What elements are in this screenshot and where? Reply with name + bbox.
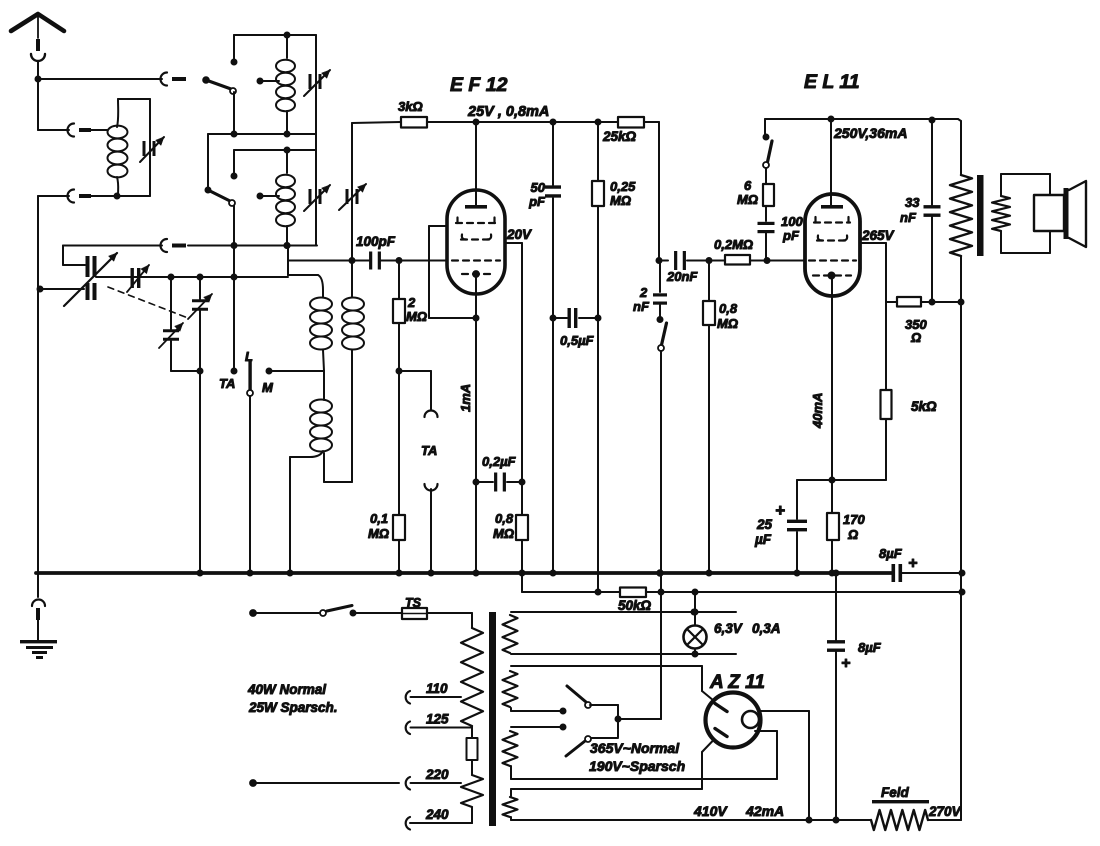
svg-text:0,2MΩ: 0,2MΩ bbox=[714, 237, 753, 252]
svg-text:A Z 11: A Z 11 bbox=[709, 672, 765, 693]
svg-text:MΩ: MΩ bbox=[717, 316, 738, 331]
svg-text:MΩ: MΩ bbox=[368, 526, 389, 541]
svg-text:TA: TA bbox=[219, 376, 235, 391]
svg-text:365V~Normal: 365V~Normal bbox=[590, 740, 680, 756]
svg-text:0,1: 0,1 bbox=[370, 511, 388, 526]
svg-text:100pF: 100pF bbox=[356, 234, 396, 249]
svg-text:25kΩ: 25kΩ bbox=[602, 129, 637, 144]
svg-text:2: 2 bbox=[407, 295, 416, 310]
svg-text:25W Sparsch.: 25W Sparsch. bbox=[248, 700, 338, 715]
svg-text:40W Normal: 40W Normal bbox=[247, 682, 326, 697]
svg-text:8µF: 8µF bbox=[879, 546, 903, 561]
svg-text:2: 2 bbox=[639, 285, 648, 300]
svg-text:nF: nF bbox=[633, 299, 650, 314]
svg-text:E L 11: E L 11 bbox=[804, 71, 860, 93]
svg-text:20V: 20V bbox=[506, 227, 532, 242]
svg-text:33: 33 bbox=[905, 195, 920, 210]
svg-text:5kΩ: 5kΩ bbox=[911, 399, 937, 414]
svg-text:+: + bbox=[775, 501, 785, 520]
svg-text:190V~Sparsch: 190V~Sparsch bbox=[589, 758, 685, 774]
svg-text:40mA: 40mA bbox=[810, 393, 825, 429]
svg-text:250V,36mA: 250V,36mA bbox=[833, 125, 907, 141]
svg-text:+: + bbox=[908, 555, 917, 572]
svg-text:Ω: Ω bbox=[910, 330, 921, 345]
svg-text:Ω: Ω bbox=[847, 527, 858, 542]
svg-text:3kΩ: 3kΩ bbox=[398, 99, 423, 114]
svg-text:265V: 265V bbox=[861, 228, 895, 243]
svg-text:0,2µF: 0,2µF bbox=[482, 454, 517, 469]
svg-text:E F 12: E F 12 bbox=[450, 74, 508, 96]
svg-text:Feld: Feld bbox=[881, 785, 910, 800]
svg-text:410V: 410V bbox=[693, 803, 728, 819]
svg-text:0,8: 0,8 bbox=[495, 511, 514, 526]
svg-text:0,5µF: 0,5µF bbox=[560, 333, 595, 348]
svg-text:110: 110 bbox=[426, 681, 448, 696]
svg-text:pF: pF bbox=[528, 194, 546, 209]
svg-text:+: + bbox=[841, 655, 850, 672]
svg-text:6,3V: 6,3V bbox=[714, 621, 743, 636]
svg-text:170: 170 bbox=[843, 512, 865, 527]
svg-text:L: L bbox=[245, 349, 253, 364]
svg-text:42mA: 42mA bbox=[745, 803, 784, 819]
svg-text:MΩ: MΩ bbox=[493, 526, 514, 541]
svg-text:20nF: 20nF bbox=[666, 269, 698, 284]
svg-text:220: 220 bbox=[425, 767, 449, 782]
svg-text:100: 100 bbox=[781, 214, 803, 229]
svg-text:50: 50 bbox=[531, 180, 546, 195]
svg-text:25: 25 bbox=[756, 517, 773, 532]
svg-text:nF: nF bbox=[900, 210, 917, 225]
svg-text:50kΩ: 50kΩ bbox=[618, 598, 652, 613]
svg-text:MΩ: MΩ bbox=[610, 193, 631, 208]
svg-text:TA: TA bbox=[421, 443, 437, 458]
svg-text:1mA: 1mA bbox=[458, 384, 473, 412]
svg-text:25V , 0,8mA: 25V , 0,8mA bbox=[467, 104, 549, 120]
svg-text:0,25: 0,25 bbox=[610, 179, 636, 194]
svg-text:125: 125 bbox=[426, 712, 449, 727]
svg-text:0,3A: 0,3A bbox=[752, 621, 781, 636]
svg-text:µF: µF bbox=[754, 532, 772, 547]
svg-text:TS: TS bbox=[405, 596, 422, 610]
svg-text:0,8: 0,8 bbox=[719, 301, 738, 316]
svg-text:240: 240 bbox=[425, 807, 449, 822]
svg-text:pF: pF bbox=[782, 228, 800, 243]
svg-text:M: M bbox=[262, 380, 274, 395]
svg-text:MΩ: MΩ bbox=[737, 192, 758, 207]
svg-text:270V: 270V bbox=[928, 804, 962, 819]
svg-text:6: 6 bbox=[744, 178, 752, 193]
svg-text:8µF: 8µF bbox=[858, 640, 882, 655]
svg-text:MΩ: MΩ bbox=[406, 309, 427, 324]
